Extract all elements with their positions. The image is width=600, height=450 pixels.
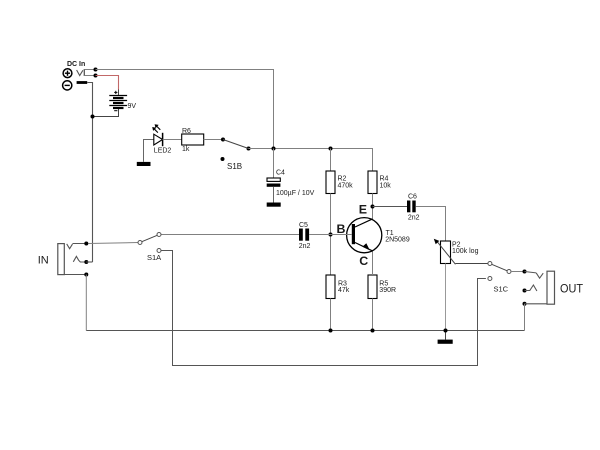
svg-text:1k: 1k — [182, 146, 190, 153]
svg-text:100k log: 100k log — [452, 248, 479, 255]
svg-text:OUT: OUT — [560, 281, 583, 295]
svg-text:2n2: 2n2 — [299, 243, 311, 250]
svg-text:9V: 9V — [128, 103, 137, 110]
svg-text:470k: 470k — [338, 182, 354, 189]
svg-text:C4: C4 — [276, 169, 285, 176]
svg-text:S1B: S1B — [227, 162, 242, 171]
svg-text:DC In: DC In — [67, 61, 85, 68]
svg-text:390R: 390R — [379, 287, 396, 294]
svg-text:10k: 10k — [380, 182, 392, 189]
svg-text:2N5089: 2N5089 — [385, 237, 410, 244]
svg-text:2n2: 2n2 — [408, 214, 420, 221]
svg-text:S1A: S1A — [147, 253, 161, 262]
svg-text:C6: C6 — [408, 194, 417, 201]
svg-text:C: C — [359, 254, 368, 268]
svg-text:S1C: S1C — [494, 284, 509, 293]
svg-text:C5: C5 — [299, 222, 308, 229]
svg-text:R6: R6 — [182, 128, 191, 135]
svg-text:IN: IN — [38, 255, 49, 267]
svg-text:100µF / 10V: 100µF / 10V — [276, 190, 315, 197]
svg-text:47k: 47k — [338, 287, 350, 294]
svg-text:B: B — [337, 222, 346, 236]
svg-text:E: E — [359, 203, 367, 217]
svg-text:LED2: LED2 — [154, 147, 172, 154]
